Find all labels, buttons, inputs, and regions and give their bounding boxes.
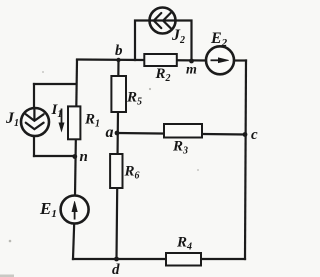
svg-text:a: a bbox=[106, 124, 114, 141]
svg-text:b: b bbox=[115, 43, 123, 59]
svg-text:m: m bbox=[186, 63, 197, 78]
svg-text:n: n bbox=[80, 149, 88, 165]
svg-text:d: d bbox=[112, 262, 120, 277]
svg-text:c: c bbox=[251, 127, 258, 143]
